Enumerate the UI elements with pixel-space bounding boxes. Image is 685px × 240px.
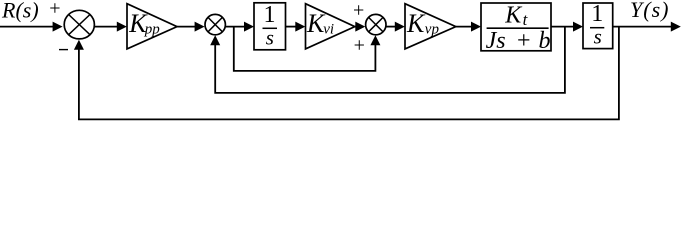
svg-text:+: + <box>49 0 60 20</box>
svg-text:+: + <box>353 0 364 21</box>
svg-text:s: s <box>266 26 274 50</box>
svg-text:+: + <box>354 35 365 57</box>
svg-text:R(s): R(s) <box>1 0 39 23</box>
svg-text:pp: pp <box>144 21 161 37</box>
svg-text:s: s <box>594 25 602 49</box>
svg-text:vi: vi <box>323 22 334 38</box>
svg-text:1: 1 <box>264 2 276 28</box>
svg-text:Js: Js <box>486 28 506 54</box>
svg-text:1: 1 <box>591 1 603 27</box>
svg-text:vp: vp <box>425 21 440 37</box>
svg-text:K: K <box>406 9 426 38</box>
svg-text:b: b <box>539 28 551 54</box>
svg-text:K: K <box>504 3 523 29</box>
svg-text:+: + <box>517 28 531 54</box>
svg-text:Y(s): Y(s) <box>630 0 669 22</box>
